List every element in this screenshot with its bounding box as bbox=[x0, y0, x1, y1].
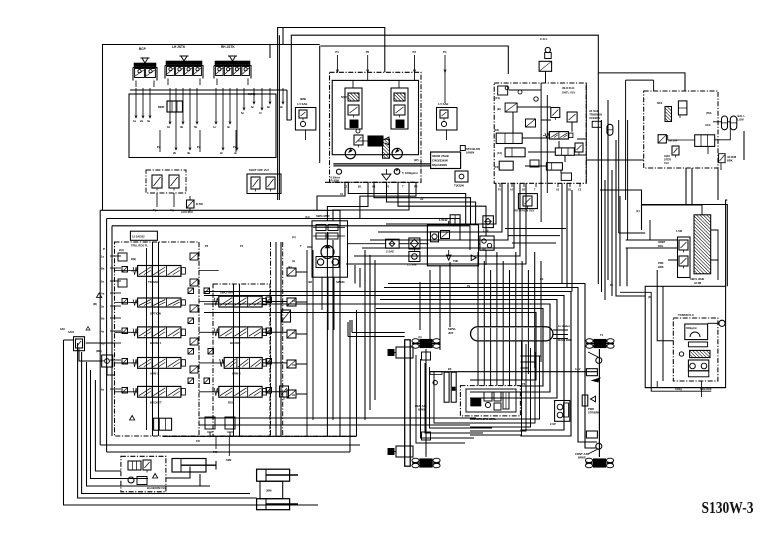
svg-text:Pa: Pa bbox=[467, 284, 471, 288]
svg-text:TORSN FLX: TORSN FLX bbox=[678, 313, 694, 317]
cooler filter F2 bbox=[441, 231, 450, 239]
left feeder boxes bbox=[118, 248, 127, 287]
wire swivel right stubs bbox=[553, 330, 568, 339]
svg-text:Pc: Pc bbox=[610, 283, 614, 287]
steer small parts bbox=[664, 146, 679, 165]
wire joystick output drops bbox=[133, 88, 284, 155]
wire swivel feed verticals bbox=[478, 252, 541, 327]
svg-text:Pb: Pb bbox=[540, 277, 544, 281]
svg-text:4b: 4b bbox=[187, 151, 191, 155]
svg-text:ROTATION VLV: ROTATION VLV bbox=[514, 209, 534, 213]
svg-text:P3: P3 bbox=[413, 50, 417, 54]
wire fd dashdot bbox=[163, 435, 357, 437]
wheel front-top bbox=[586, 339, 614, 349]
svg-text:(C2): (C2) bbox=[494, 165, 499, 169]
suction strainer bbox=[382, 169, 391, 180]
pilot cap a3 bbox=[122, 318, 194, 334]
swivel joint body bbox=[471, 327, 553, 341]
check column mid-right bbox=[287, 268, 296, 398]
svg-text:ORBT: ORBT bbox=[658, 240, 666, 244]
swing motor box bbox=[312, 221, 348, 277]
svg-text:(B): (B) bbox=[497, 107, 501, 111]
wire pilot frame left bbox=[103, 45, 320, 211]
svg-text:P2: P2 bbox=[366, 50, 370, 54]
node labels pilot ports bbox=[248, 92, 349, 101]
wire right bank stubs bbox=[262, 272, 307, 394]
svg-text:2nd BOOM VLV: 2nd BOOM VLV bbox=[147, 486, 166, 490]
svg-text:42 2M: 42 2M bbox=[694, 281, 701, 285]
wire gallery left bank bbox=[147, 242, 159, 436]
safety valve cluster bbox=[247, 168, 281, 194]
rc valve c bbox=[551, 108, 560, 121]
svg-text:P4: P4 bbox=[522, 382, 526, 386]
wire priority feed bbox=[166, 467, 200, 487]
relief RV9 bbox=[719, 154, 736, 163]
priority dashdot box bbox=[121, 456, 166, 492]
wire bank crossings bbox=[199, 271, 224, 392]
wire stack top bbox=[642, 205, 703, 215]
front brake box top bbox=[575, 367, 597, 376]
warn triangle 3 bbox=[147, 474, 166, 491]
svg-text:T: T bbox=[402, 185, 404, 189]
svg-text:S130W-3: S130W-3 bbox=[702, 498, 754, 517]
cooler out triangle bbox=[471, 255, 476, 261]
valve block vb bbox=[154, 418, 172, 430]
wire pump supply D bbox=[398, 182, 486, 236]
svg-text:STR/BRK: STR/BRK bbox=[588, 411, 600, 415]
rc valve i bbox=[561, 173, 571, 180]
svg-text:2(A): 2(A) bbox=[119, 248, 124, 252]
rear axle bar bbox=[405, 340, 411, 466]
wire rc right verticals bbox=[586, 83, 627, 240]
bank top block bbox=[130, 231, 157, 240]
pump inner frame bbox=[332, 80, 418, 154]
turning dashdot box bbox=[673, 318, 718, 381]
wire steer top bbox=[626, 80, 654, 200]
svg-text:3-4V: 3-4V bbox=[575, 367, 581, 371]
svg-text:3MB: 3MB bbox=[300, 97, 306, 101]
wire left bus 6 bbox=[64, 340, 319, 505]
svg-text:P2: P2 bbox=[205, 244, 209, 248]
svg-text:ACC: ACC bbox=[705, 123, 711, 127]
svg-text:(D): (D) bbox=[648, 295, 652, 299]
wire rear axle drive bbox=[425, 351, 427, 455]
box pilot manifold bbox=[129, 94, 276, 158]
rear wheel drop top bbox=[422, 349, 431, 364]
label t63 bbox=[213, 450, 232, 462]
svg-text:2b: 2b bbox=[173, 151, 177, 155]
swivel labels bbox=[448, 324, 572, 342]
front steer arrow bbox=[592, 378, 600, 382]
spool option bbox=[131, 298, 185, 316]
boom cylinder A bbox=[257, 469, 298, 481]
svg-text:B1: B1 bbox=[358, 185, 362, 189]
svg-text:Pa: Pa bbox=[157, 145, 161, 149]
pilot shutoff dashed box bbox=[146, 170, 186, 193]
svg-text:65p/1660N: 65p/1660N bbox=[432, 163, 447, 167]
wire mid long verticals bbox=[365, 250, 375, 420]
bottomright outer box bbox=[645, 286, 725, 387]
svg-text:(C1): (C1) bbox=[495, 96, 500, 100]
rear axle label bbox=[415, 404, 427, 412]
wire aux bbox=[189, 196, 191, 212]
wheel rear-bottom bbox=[412, 458, 440, 468]
svg-text:36M: 36M bbox=[266, 489, 272, 493]
svg-text:BRK: BRK bbox=[727, 159, 733, 163]
front axle line bbox=[598, 349, 600, 457]
wire rc-to-bus maze bbox=[346, 183, 526, 264]
misc port labels bbox=[60, 192, 652, 386]
svg-text:to trailer: to trailer bbox=[558, 324, 571, 328]
svg-text:1c: 1c bbox=[213, 125, 217, 129]
svg-text:Bb: Bb bbox=[101, 317, 105, 321]
wire pump outlet L bbox=[317, 182, 345, 210]
svg-text:RH JSTK: RH JSTK bbox=[221, 45, 235, 49]
svg-text:CW3/33KW: CW3/33KW bbox=[432, 159, 448, 163]
pilot cap b1 bbox=[204, 288, 272, 303]
wire gallery right bank bbox=[234, 284, 240, 436]
main pump MP2 bbox=[392, 148, 402, 158]
wire sv links bbox=[79, 343, 115, 375]
rc extra valve o bbox=[575, 143, 583, 155]
turn valve bbox=[679, 350, 710, 357]
wire valvebank outer top bbox=[100, 210, 470, 226]
right bank boundary dashdot bbox=[213, 284, 270, 436]
label FD bbox=[196, 439, 200, 443]
turn port circle bbox=[708, 286, 726, 326]
svg-text:C.O.L: C.O.L bbox=[540, 37, 548, 41]
svg-text:T. 100kg/cm: T. 100kg/cm bbox=[402, 171, 418, 175]
wire center drop cluster bbox=[420, 262, 450, 350]
wire br box bottom drop bbox=[657, 381, 701, 397]
svg-text:BRKE: BRKE bbox=[578, 456, 586, 460]
spec plate bbox=[431, 152, 461, 169]
rc left valve j bbox=[494, 128, 522, 144]
pump regulator R2 bbox=[391, 80, 408, 129]
travel check circle bbox=[430, 372, 442, 385]
svg-text:1a: 1a bbox=[133, 119, 137, 123]
steer valve v2 bbox=[658, 135, 678, 143]
wire right vert pair to bottom bbox=[605, 170, 612, 300]
check valve 2sae bbox=[386, 239, 400, 253]
wire top frame C bbox=[321, 46, 509, 74]
pilot valve PV1 (dozer) bbox=[133, 47, 157, 87]
oil cooler box bbox=[427, 225, 478, 266]
svg-text:24 SAE: 24 SAE bbox=[589, 109, 599, 113]
block under COL bbox=[539, 61, 552, 71]
steer cylinder bbox=[172, 459, 216, 473]
rc valve h bbox=[546, 163, 562, 170]
wire rear wheel stems bbox=[425, 351, 427, 456]
rc spool f bbox=[543, 132, 573, 139]
steer pump bbox=[657, 101, 672, 122]
svg-text:ARM 1: ARM 1 bbox=[150, 372, 159, 376]
svg-text:1-5M: 1-5M bbox=[676, 229, 682, 233]
svg-text:3a: 3a bbox=[147, 119, 151, 123]
svg-text:BUCKET: BUCKET bbox=[150, 401, 162, 405]
rc valve e bbox=[592, 121, 601, 127]
swing stack side bbox=[678, 237, 691, 278]
wire dashdot vertical right bbox=[282, 242, 284, 436]
wire rear axle feeds bbox=[348, 320, 405, 337]
priority valve p2 bbox=[143, 460, 151, 473]
svg-text:(W): (W) bbox=[414, 158, 419, 162]
svg-text:2a: 2a bbox=[140, 119, 144, 123]
solenoid C.O.L bbox=[540, 37, 551, 59]
svg-text:2c: 2c bbox=[220, 151, 224, 155]
wire undercarriage frame bbox=[415, 340, 596, 466]
spool boom-1 bbox=[131, 327, 185, 345]
rc left valve l bbox=[494, 161, 513, 170]
boom cylinder B bbox=[257, 499, 298, 510]
priority block bbox=[695, 135, 715, 147]
front axle label bbox=[575, 452, 589, 460]
svg-text:B3: B3 bbox=[448, 367, 452, 371]
front brake box bottom bbox=[586, 431, 597, 438]
accumulator AC2 bbox=[730, 114, 745, 130]
svg-text:Ba: Ba bbox=[101, 267, 105, 271]
solenoid SV2 bbox=[96, 349, 113, 367]
wire stack feeds bbox=[626, 220, 678, 260]
travel dashdot box bbox=[460, 386, 520, 416]
svg-text:TRNSMSN: TRNSMSN bbox=[589, 113, 602, 117]
svg-text:LOW: LOW bbox=[738, 118, 745, 122]
wire swivel below turns bbox=[520, 356, 541, 368]
wire swing outer frame bbox=[642, 205, 728, 287]
svg-text:8c: 8c bbox=[267, 105, 271, 109]
svg-text:BOOM 1: BOOM 1 bbox=[150, 341, 161, 345]
warn triangle 2 bbox=[130, 416, 135, 421]
valve PV4 bbox=[152, 175, 162, 191]
svg-text:(14): (14) bbox=[305, 215, 310, 219]
wire steer down bbox=[668, 135, 721, 170]
svg-text:SWVL WHE: SWVL WHE bbox=[690, 277, 704, 281]
warn triangle 1 bbox=[93, 293, 102, 306]
port arrows left bbox=[101, 255, 121, 392]
svg-text:4.5KW: 4.5KW bbox=[439, 218, 448, 222]
spool swing bbox=[212, 291, 266, 308]
svg-text:MNF: MNF bbox=[158, 105, 165, 109]
swing valve stack bbox=[694, 215, 711, 274]
wire cooler link bbox=[449, 218, 486, 265]
svg-text:SHUT OFF VLV: SHUT OFF VLV bbox=[249, 168, 269, 172]
wire center frame 2 bbox=[270, 28, 283, 59]
rc extra valve n bbox=[530, 160, 539, 167]
rc left valve k bbox=[497, 148, 525, 157]
svg-text:(A): (A) bbox=[292, 235, 296, 239]
pilot cap a5 bbox=[122, 378, 194, 393]
svg-text:5c: 5c bbox=[241, 111, 245, 115]
wire right long vertical 1 bbox=[597, 73, 599, 284]
pilot filter box bbox=[454, 171, 468, 188]
rc port ticks bbox=[498, 183, 582, 191]
travel left bars bbox=[444, 372, 456, 402]
wire bank center verticals bbox=[276, 242, 313, 436]
relief RV2 bbox=[280, 386, 289, 400]
svg-text:160kg: 160kg bbox=[675, 388, 682, 391]
valve PV5 bbox=[169, 175, 179, 191]
rc valve d bbox=[567, 112, 577, 125]
svg-text:3A61: 3A61 bbox=[68, 330, 75, 334]
cooler filter F1 bbox=[431, 232, 439, 242]
wire swivel below stubs bbox=[478, 341, 541, 386]
front knuckle bottom bbox=[588, 443, 602, 454]
svg-text:1.5 SAE: 1.5 SAE bbox=[297, 102, 308, 106]
wire left bus 2 bbox=[82, 352, 250, 494]
svg-text:48 2KM: 48 2KM bbox=[727, 155, 736, 159]
wire col drop bbox=[545, 72, 547, 84]
travel right cluster bbox=[550, 401, 570, 427]
travel inner box bbox=[466, 389, 516, 412]
rc valve a bbox=[495, 86, 509, 100]
svg-text:LH JSTK: LH JSTK bbox=[172, 45, 186, 49]
svg-text:(B): (B) bbox=[482, 247, 486, 251]
rc extra valve m bbox=[526, 119, 536, 127]
pilot cap b4 bbox=[204, 378, 272, 393]
travel dark block bbox=[471, 399, 481, 406]
wire left bus 4 bbox=[91, 370, 149, 479]
svg-text:13 SAE/32: 13 SAE/32 bbox=[132, 235, 145, 239]
wire pump drop2 bbox=[327, 182, 368, 221]
remote control dashdot box bbox=[494, 83, 586, 183]
accumulator AC1 bbox=[706, 111, 728, 130]
svg-text:3A6: 3A6 bbox=[60, 327, 65, 331]
rc extra circle bbox=[518, 90, 538, 101]
rear wheel drop bottom bbox=[422, 432, 431, 457]
wire pump supply B bbox=[374, 182, 471, 224]
check boxes mid bbox=[190, 253, 198, 373]
steer valve v1 bbox=[678, 101, 687, 118]
spool arm-2 bbox=[218, 358, 267, 376]
wire global L1 bbox=[287, 90, 291, 120]
pilot valve PV3 (RH joystick) bbox=[214, 45, 251, 85]
wire left bus 5 bbox=[95, 380, 121, 471]
wire right long vertical 2 bbox=[601, 120, 603, 292]
wire accum link bbox=[705, 122, 730, 140]
wire center frame 1 bbox=[278, 35, 280, 200]
svg-text:Pa: Pa bbox=[197, 145, 201, 149]
svg-text:(M): (M) bbox=[93, 302, 97, 306]
svg-text:(C): (C) bbox=[636, 209, 640, 213]
wire turn feed bbox=[657, 270, 673, 341]
svg-text:2 SAE: 2 SAE bbox=[386, 250, 394, 254]
cylinder link box bbox=[260, 481, 283, 498]
bank label bbox=[103, 244, 148, 252]
pilot cap a4 bbox=[122, 349, 194, 365]
wire steer box drops bbox=[686, 131, 744, 205]
svg-text:VLV: VLV bbox=[664, 161, 669, 165]
svg-text:4M: 4M bbox=[308, 280, 313, 284]
wire joystick bus bbox=[130, 89, 287, 91]
wire top frame A bbox=[278, 28, 385, 201]
svg-text:TNK: TNK bbox=[453, 259, 458, 263]
valve 1.5SAE left bbox=[295, 102, 316, 140]
main pump dashdot box bbox=[330, 72, 422, 182]
wire pump bottom dashdot bbox=[325, 181, 419, 183]
wire right frame big bbox=[685, 80, 727, 286]
svg-text:TRAVEL: TRAVEL bbox=[148, 280, 159, 284]
wire pilot bus lines bbox=[204, 284, 597, 449]
rear hub bottom bbox=[388, 446, 413, 457]
turn bottom rect bbox=[688, 371, 708, 377]
gear pump GP1 bbox=[394, 169, 418, 175]
wheel rear-top bbox=[412, 339, 440, 349]
spool boom-2 bbox=[212, 327, 266, 345]
svg-text:ROL: ROL bbox=[658, 244, 664, 248]
svg-text:30.8 FLK: 30.8 FLK bbox=[562, 86, 575, 90]
swing motor M bbox=[321, 246, 334, 259]
svg-text:P: P bbox=[103, 247, 105, 251]
wire left stubs bbox=[115, 271, 138, 392]
svg-text:6c: 6c bbox=[251, 105, 255, 109]
check diamond bbox=[409, 238, 420, 249]
svg-text:P1: P1 bbox=[335, 50, 339, 54]
svg-text:3c: 3c bbox=[227, 125, 231, 129]
svg-text:NC3: NC3 bbox=[657, 101, 663, 105]
svg-text:BCP: BCP bbox=[139, 47, 147, 51]
svg-text:34000 2SAE: 34000 2SAE bbox=[432, 154, 449, 158]
front valve mid bbox=[582, 395, 595, 406]
title S130W-3 bbox=[702, 498, 754, 517]
bypass box bbox=[407, 252, 420, 267]
svg-text:1b: 1b bbox=[167, 125, 171, 129]
svg-text:T(X2)/N: T(X2)/N bbox=[454, 184, 464, 188]
spool reserve bbox=[212, 386, 266, 404]
wire lower frame bottoms bbox=[100, 436, 360, 452]
wire mid right horizontals bbox=[619, 233, 646, 286]
wire rc verticals bbox=[541, 83, 547, 222]
front label bbox=[588, 407, 600, 415]
wire pump pilot drops bbox=[335, 50, 446, 103]
spool travel-L bbox=[131, 266, 185, 285]
svg-text:2-SP: 2-SP bbox=[550, 422, 556, 426]
rc text 24sae bbox=[589, 109, 602, 120]
wire right of bank verticals bbox=[327, 230, 356, 452]
tag STD BLKD bbox=[460, 146, 480, 155]
svg-text:9c: 9c bbox=[280, 105, 284, 109]
svg-text:TRVL RCK FL: TRVL RCK FL bbox=[131, 244, 148, 248]
wire pump drop4 bbox=[333, 182, 409, 221]
svg-text:FD: FD bbox=[196, 439, 200, 443]
svg-text:(C1): (C1) bbox=[497, 151, 502, 155]
label XX FLK bbox=[562, 86, 575, 95]
pilot cap a2 bbox=[122, 288, 194, 304]
turning label bbox=[678, 313, 694, 317]
tank triangle bbox=[446, 250, 458, 263]
label 160bar bbox=[675, 388, 712, 391]
wire pump outlet R bbox=[360, 182, 416, 218]
svg-text:Pa: Pa bbox=[233, 145, 237, 149]
main pump MP1 bbox=[345, 148, 355, 158]
svg-text:1660N: 1660N bbox=[466, 151, 474, 155]
turn comp dome bbox=[685, 324, 708, 340]
svg-text:1.5 SAE: 1.5 SAE bbox=[438, 102, 449, 106]
steer dashdot box bbox=[644, 91, 718, 168]
svg-text:(A): (A) bbox=[418, 335, 422, 339]
wire pump supply A bbox=[348, 182, 465, 224]
travel labels bbox=[470, 417, 496, 421]
rc accumulator bbox=[607, 124, 613, 135]
svg-text:(78A: (78A bbox=[706, 111, 712, 115]
swing brake circles bbox=[316, 257, 339, 268]
wire travel maze right bbox=[470, 340, 540, 435]
valve small t bbox=[205, 417, 235, 436]
wire pv returns bbox=[153, 193, 174, 212]
relief RV0 bbox=[331, 169, 342, 182]
svg-text:X1: X1 bbox=[340, 192, 344, 196]
swivel ticks bbox=[478, 328, 541, 340]
valve bank boundary dashdot bbox=[115, 242, 200, 436]
